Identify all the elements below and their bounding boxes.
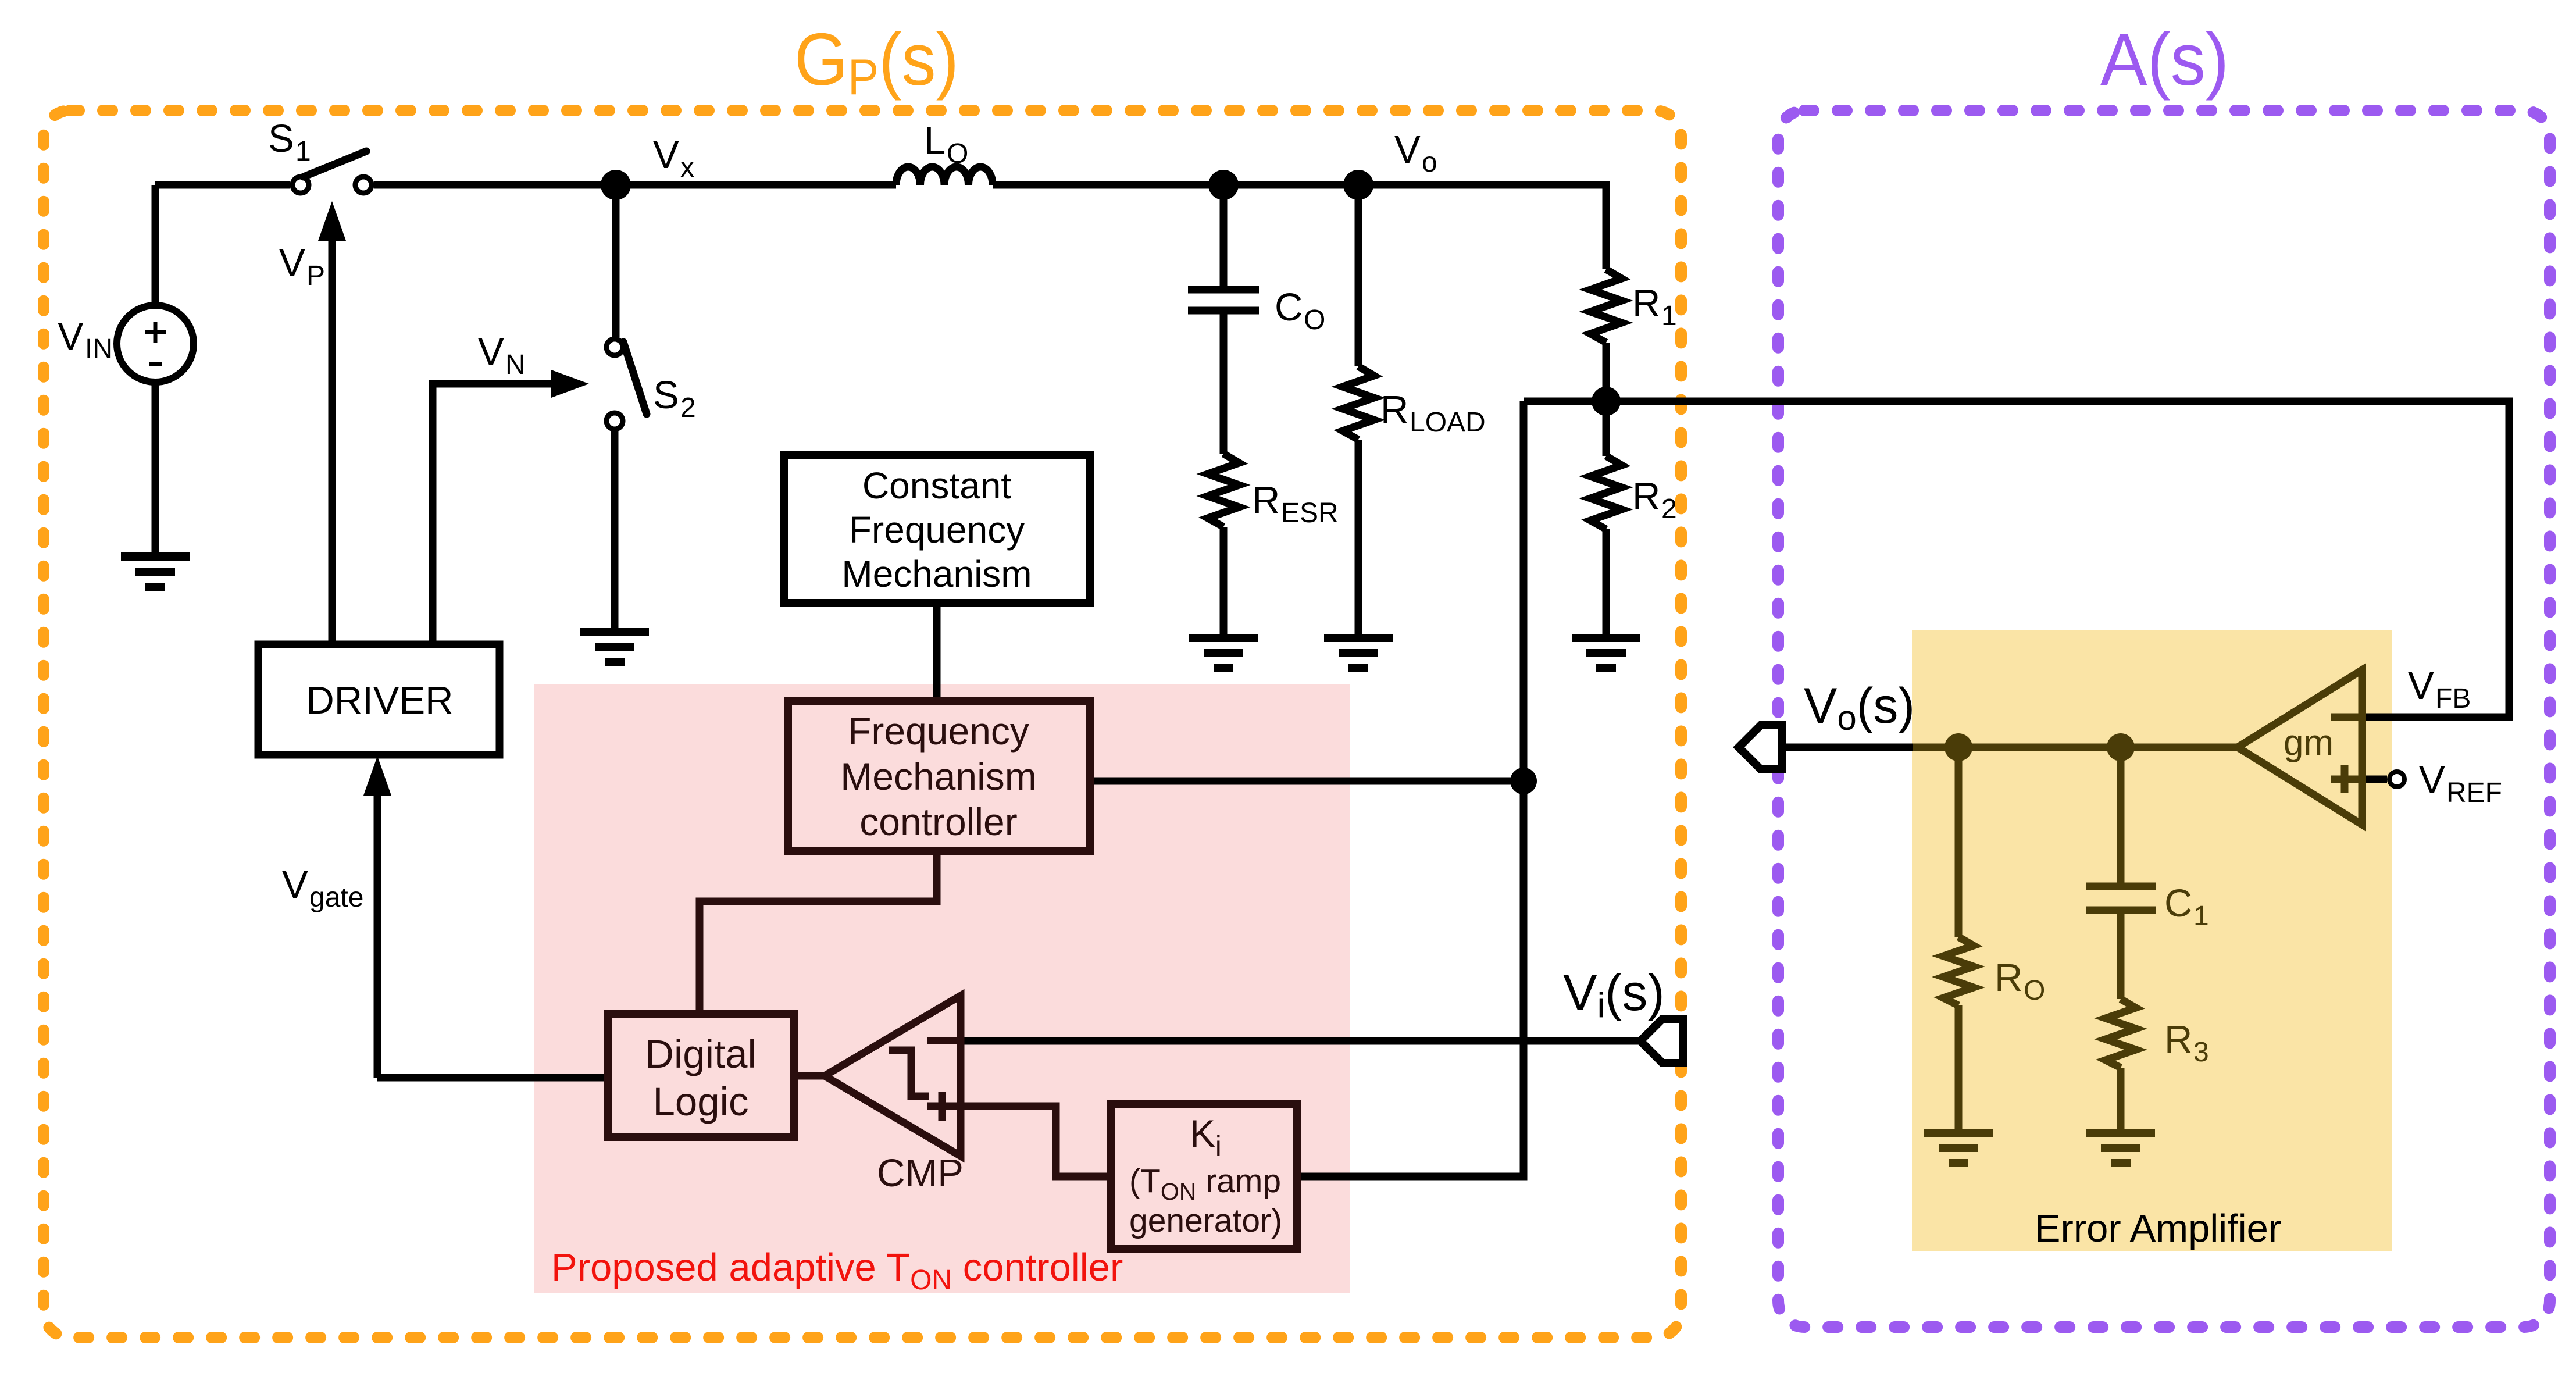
svg-text:o: o: [1422, 147, 1437, 178]
svg-text:Proposed adaptive TON controll: Proposed adaptive TON controller: [551, 1246, 1123, 1296]
svg-text:V: V: [58, 315, 84, 358]
svg-text:gm: gm: [2284, 723, 2334, 763]
svg-text:C: C: [2164, 882, 2192, 925]
svg-text:R: R: [1252, 479, 1280, 522]
svg-text:P: P: [306, 261, 325, 291]
svg-text:S: S: [268, 117, 294, 161]
svg-text:C: C: [1275, 286, 1303, 329]
svg-text:3: 3: [2193, 1037, 2209, 1068]
svg-text:V: V: [478, 330, 504, 374]
svg-text:REF: REF: [2446, 778, 2502, 808]
svg-text:Error Amplifier: Error Amplifier: [2035, 1207, 2281, 1250]
svg-text:controller: controller: [859, 800, 1017, 843]
svg-text:2: 2: [680, 393, 696, 423]
svg-text:A(s): A(s): [2100, 19, 2229, 101]
svg-text:O: O: [2024, 975, 2045, 1006]
svg-text:L: L: [924, 119, 946, 163]
svg-text:V: V: [653, 133, 679, 177]
svg-text:V: V: [2419, 758, 2445, 802]
svg-text:gate: gate: [309, 882, 363, 913]
svg-text:V: V: [1394, 128, 1421, 172]
svg-text:O: O: [1304, 305, 1325, 336]
svg-text:R: R: [2164, 1018, 2192, 1061]
svg-text:Logic: Logic: [653, 1079, 749, 1124]
svg-text:N: N: [505, 350, 526, 380]
svg-text:R: R: [1380, 388, 1408, 431]
svg-text:2: 2: [1661, 494, 1677, 525]
svg-text:Vi(s): Vi(s): [1563, 964, 1665, 1025]
svg-text:V: V: [2408, 664, 2434, 708]
svg-text:DRIVER: DRIVER: [306, 679, 453, 722]
svg-text:IN: IN: [85, 334, 113, 365]
svg-text:x: x: [680, 152, 694, 183]
svg-text:FB: FB: [2435, 683, 2471, 714]
svg-text:Vo(s): Vo(s): [1804, 678, 1915, 737]
svg-text:1: 1: [1661, 301, 1677, 331]
svg-text:LOAD: LOAD: [1410, 407, 1486, 438]
svg-text:1: 1: [295, 136, 311, 167]
svg-text:R: R: [1632, 475, 1660, 518]
svg-text:ESR: ESR: [1281, 498, 1339, 529]
svg-text:Frequency: Frequency: [848, 709, 1029, 753]
svg-text:V: V: [282, 863, 308, 907]
svg-text:generator): generator): [1129, 1202, 1282, 1239]
svg-text:V: V: [279, 241, 305, 285]
svg-text:R: R: [1995, 956, 2022, 1000]
svg-text:Frequency: Frequency: [849, 509, 1025, 551]
svg-text:S: S: [653, 373, 679, 417]
svg-text:R: R: [1632, 281, 1660, 325]
svg-text:1: 1: [2193, 901, 2209, 932]
svg-text:(TON ramp: (TON ramp: [1129, 1162, 1281, 1205]
svg-text:Mechanism: Mechanism: [840, 755, 1036, 798]
svg-text:Mechanism: Mechanism: [841, 553, 1032, 595]
svg-text:CMP: CMP: [877, 1151, 964, 1195]
svg-text:Constant: Constant: [862, 465, 1011, 507]
svg-text:O: O: [947, 138, 968, 169]
svg-text:Digital: Digital: [645, 1032, 757, 1076]
